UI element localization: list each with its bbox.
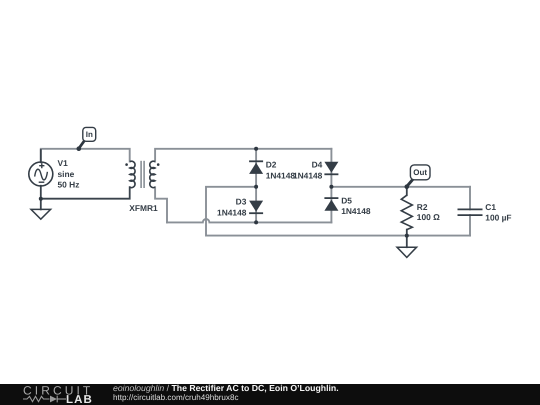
svg-text:1N4148: 1N4148 xyxy=(293,171,323,181)
svg-text:D3: D3 xyxy=(236,196,247,206)
svg-text:LAB: LAB xyxy=(66,394,93,405)
svg-text:http://circuitlab.com/cruh49hb: http://circuitlab.com/cruh49hbrux8c xyxy=(113,393,239,402)
svg-text:1N4148: 1N4148 xyxy=(341,206,371,216)
svg-text:1N4148: 1N4148 xyxy=(266,171,296,181)
svg-text:50 Hz: 50 Hz xyxy=(58,180,80,190)
svg-text:sine: sine xyxy=(58,169,75,179)
svg-text:D4: D4 xyxy=(312,159,323,169)
svg-text:V1: V1 xyxy=(58,158,69,168)
svg-text:D2: D2 xyxy=(266,159,277,169)
svg-text:1N4148: 1N4148 xyxy=(217,207,247,217)
svg-text:XFMR1: XFMR1 xyxy=(129,203,158,213)
svg-text:100 Ω: 100 Ω xyxy=(417,212,440,222)
svg-text:Out: Out xyxy=(413,168,427,177)
svg-text:In: In xyxy=(86,130,93,139)
svg-text:100 µF: 100 µF xyxy=(485,212,511,222)
svg-text:D5: D5 xyxy=(341,195,352,205)
svg-text:R2: R2 xyxy=(417,202,428,212)
svg-text:eoinoloughlin / The Rectifier: eoinoloughlin / The Rectifier AC to DC, … xyxy=(113,383,339,393)
svg-text:C1: C1 xyxy=(485,202,496,212)
